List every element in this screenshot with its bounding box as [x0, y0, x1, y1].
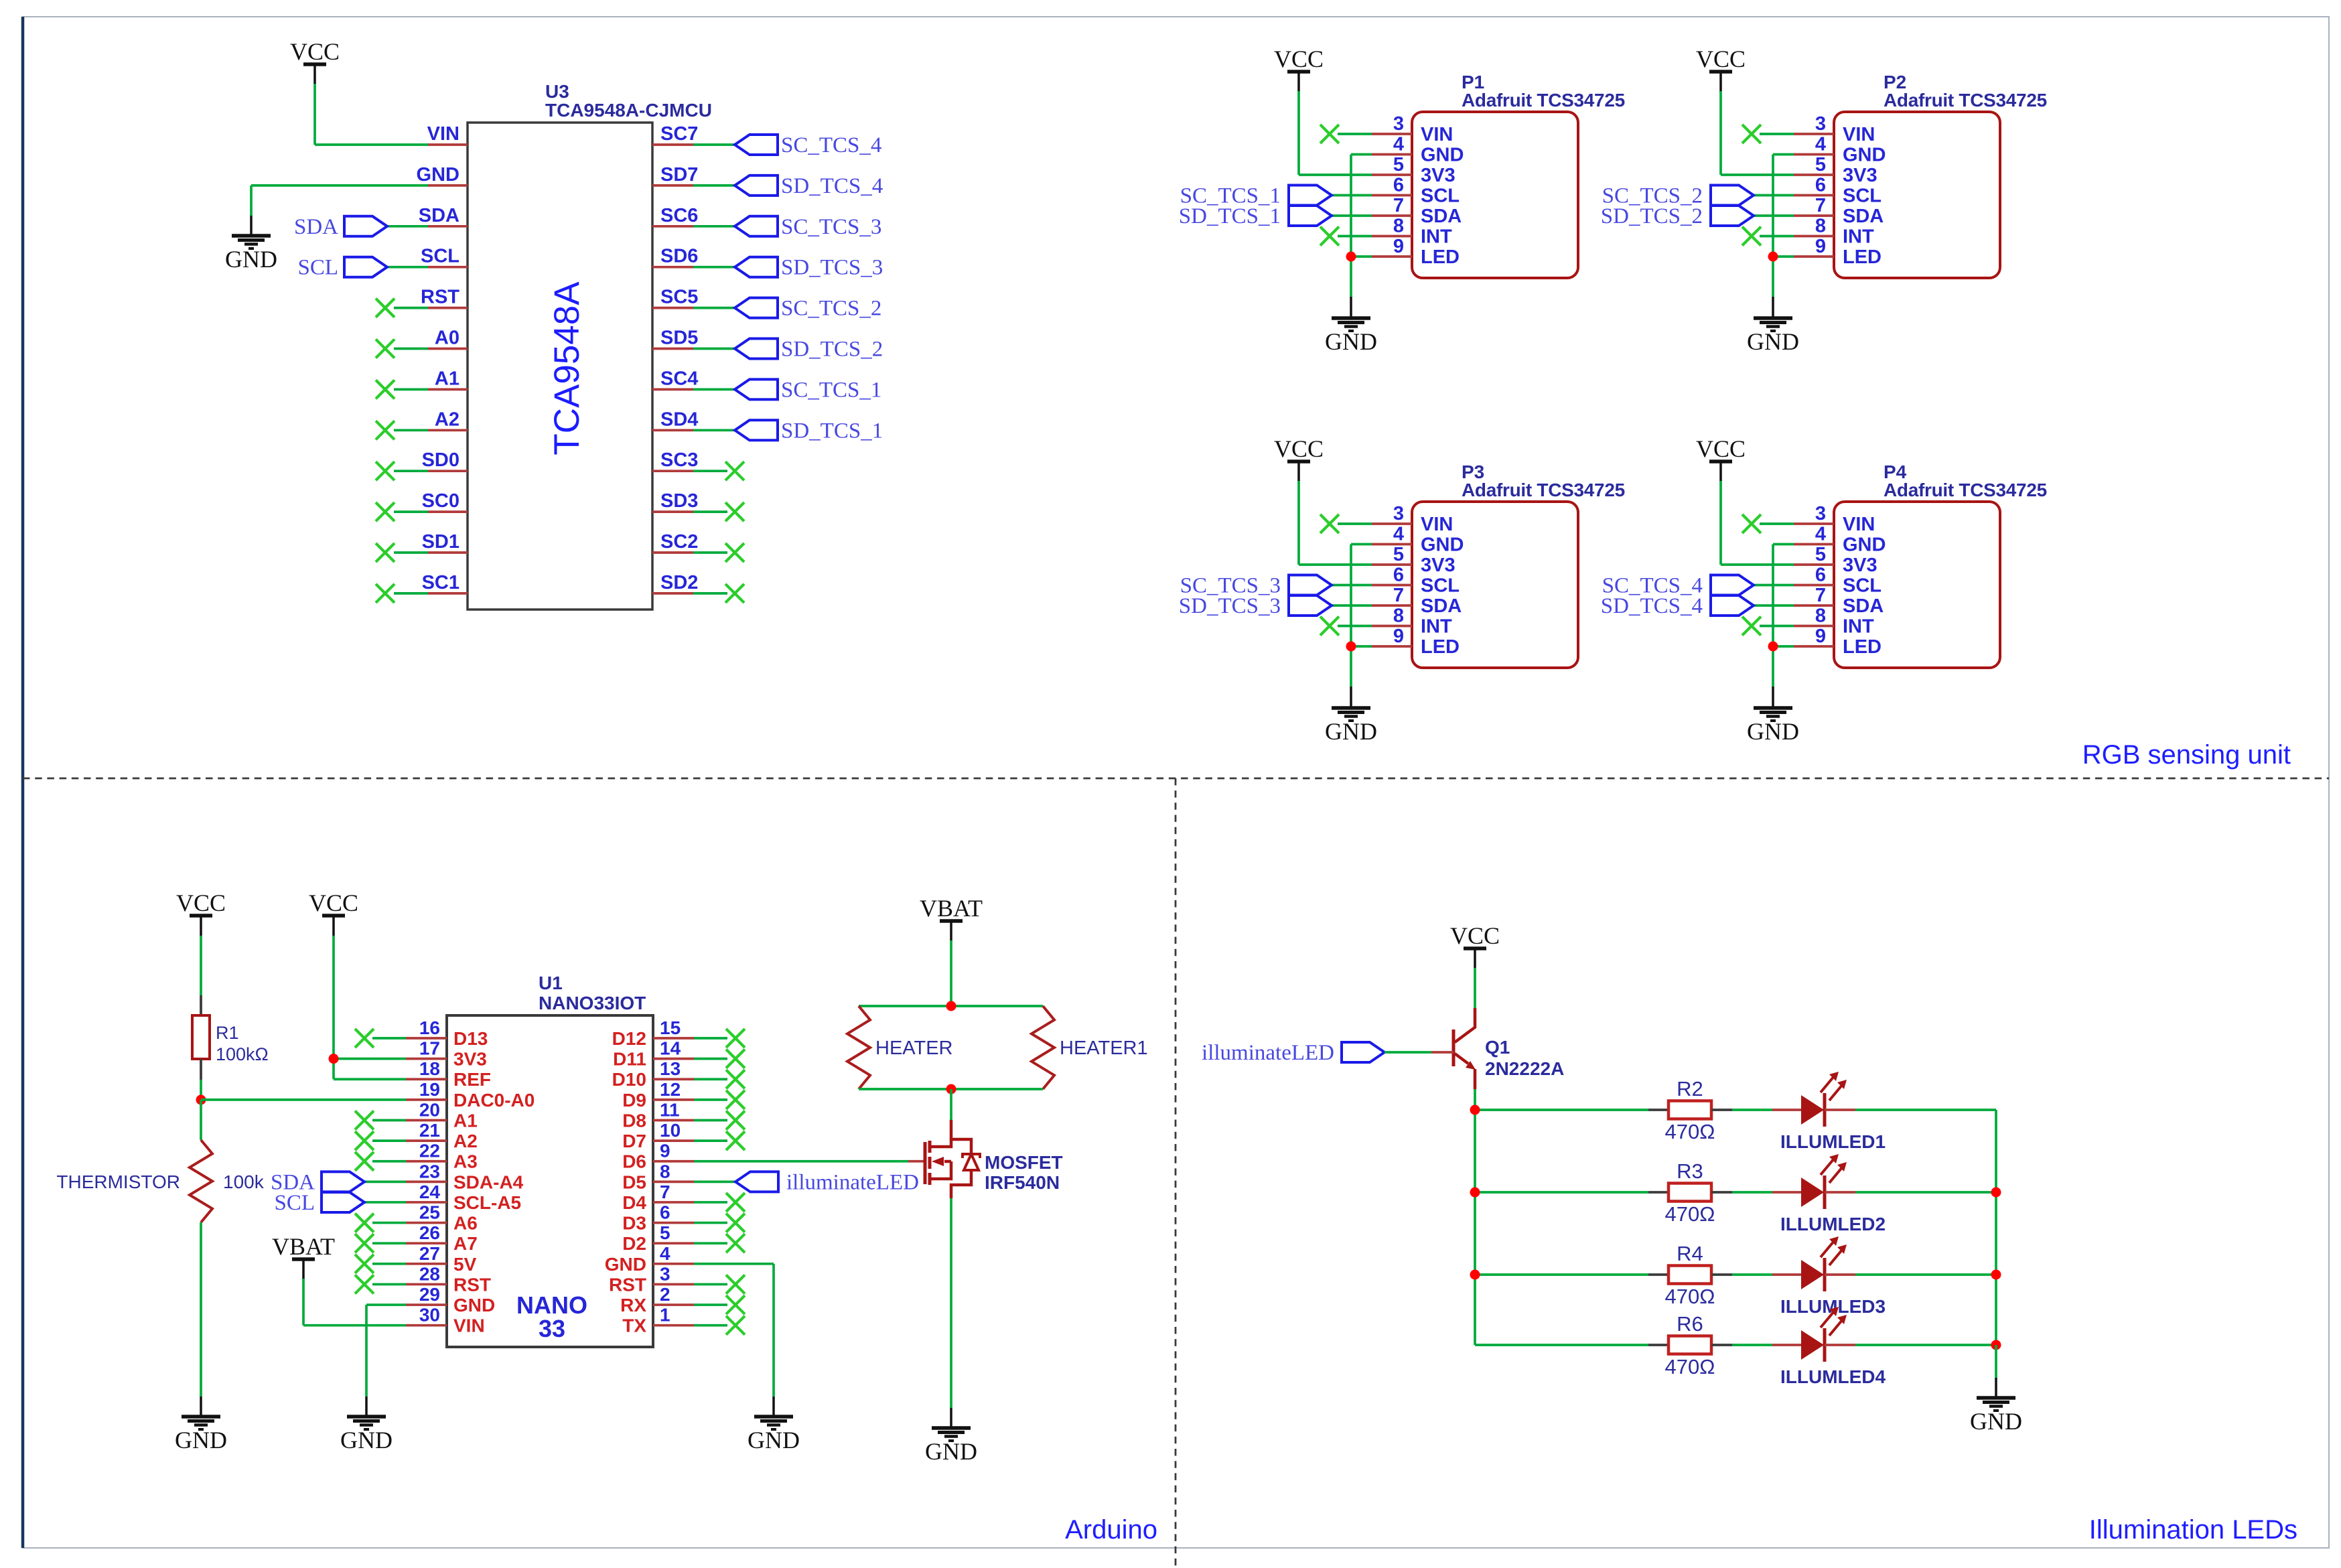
P3 pin 7 SDA stub and label [1372, 585, 1462, 617]
wire VCC to Q1 collector [1474, 968, 1476, 1008]
ground (P3) [1325, 708, 1377, 745]
wire R4 to LED3 [1732, 1273, 1801, 1276]
wire P1 GND pin [1351, 155, 1372, 319]
U3 pin SD7 (stub/wire/net) [652, 164, 883, 198]
svg-text:14: 14 [660, 1038, 681, 1059]
svg-text:470Ω: 470Ω [1665, 1202, 1715, 1226]
svg-text:6: 6 [1815, 175, 1826, 196]
P4 pin 8 INT stub and label [1794, 605, 1874, 638]
svg-text:SC3: SC3 [660, 449, 698, 471]
wire heater rail to MOSFET drain [950, 1089, 952, 1120]
svg-text:GND: GND [453, 1295, 495, 1315]
wire U3 GND pin to ground [251, 186, 428, 236]
svg-text:MOSFET: MOSFET [985, 1152, 1063, 1173]
LED ILLUMLED3 [1780, 1236, 1886, 1317]
ground (U3) [225, 236, 277, 273]
svg-text:VCC: VCC [1696, 435, 1746, 462]
net flag SD_TCS_1 to P1 SDA [1179, 204, 1372, 228]
svg-text:15: 15 [660, 1017, 681, 1038]
junction right bus rail4 [1991, 1340, 2001, 1350]
svg-text:R1: R1 [216, 1023, 239, 1043]
svg-text:VCC: VCC [1696, 46, 1746, 72]
U3 pin SD0 (stub/wire/label) [376, 449, 468, 480]
P3 pin 8 INT stub and label [1372, 605, 1452, 638]
svg-text:6: 6 [1393, 175, 1404, 196]
svg-text:11: 11 [660, 1099, 680, 1120]
svg-text:5: 5 [1393, 154, 1404, 175]
svg-text:SC6: SC6 [660, 205, 698, 226]
svg-text:D12: D12 [612, 1028, 646, 1049]
svg-text:4: 4 [660, 1243, 670, 1264]
ground (thermistor) [175, 1417, 227, 1453]
svg-text:3V3: 3V3 [1421, 165, 1456, 186]
svg-text:LED: LED [1421, 636, 1460, 658]
svg-text:SC2: SC2 [660, 531, 698, 553]
net flag illuminateLED from U1 D5 [694, 1170, 919, 1194]
wire U1 GND(29) to ground [366, 1305, 406, 1417]
P2 pin 8 INT stub and label [1794, 216, 1874, 248]
svg-text:LED: LED [1421, 246, 1460, 268]
U3 pin VIN (stub/wire/label) [427, 123, 468, 145]
power VCC (U1 supply) [309, 889, 358, 936]
svg-text:7: 7 [660, 1182, 670, 1202]
svg-text:R4: R4 [1677, 1242, 1703, 1265]
svg-text:INT: INT [1421, 616, 1452, 638]
svg-text:21: 21 [419, 1120, 440, 1141]
svg-text:SD_TCS_2: SD_TCS_2 [1601, 204, 1703, 228]
svg-text:VCC: VCC [176, 889, 226, 916]
svg-text:RGB sensing unit: RGB sensing unit [2082, 740, 2291, 770]
svg-text:A3: A3 [453, 1151, 478, 1172]
svg-text:470Ω: 470Ω [1665, 1285, 1715, 1308]
svg-text:GND: GND [175, 1427, 227, 1453]
ground (P1) [1325, 318, 1377, 355]
svg-text:D8: D8 [622, 1110, 646, 1131]
svg-text:THERMISTOR: THERMISTOR [56, 1171, 180, 1192]
wire LED3 to right bus [1825, 1273, 1996, 1276]
resistor R4 470Ω [1648, 1242, 1732, 1308]
wire heater top rail [859, 1005, 1043, 1007]
svg-text:4: 4 [1393, 524, 1404, 545]
svg-text:R6: R6 [1677, 1312, 1703, 1336]
resistor R6 470Ω [1648, 1312, 1732, 1378]
svg-text:INT: INT [1843, 616, 1874, 638]
svg-text:RST: RST [453, 1274, 491, 1295]
P4 pin 6 SCL stub and label [1794, 565, 1882, 597]
U1 pin 16 D13 [355, 1017, 488, 1049]
svg-text:illuminateLED: illuminateLED [1202, 1041, 1334, 1065]
P1 INT no-connect [1320, 227, 1372, 246]
ground (MOSFET source) [925, 1428, 977, 1465]
svg-text:GND: GND [340, 1427, 393, 1453]
wire U1 GND(4) to ground [694, 1264, 774, 1417]
U1 pin 9 D6 [622, 1141, 694, 1172]
LED ILLUMLED1 [1780, 1072, 1886, 1152]
power VCC (Q1 collector) [1450, 922, 1500, 969]
net flag SC_TCS_3 to P3 SCL [1180, 574, 1372, 598]
svg-text:GND: GND [748, 1427, 800, 1453]
wire P3 LED pin to ground net [1351, 645, 1372, 648]
svg-text:SCL: SCL [297, 256, 338, 280]
section label Arduino [1065, 1515, 1157, 1545]
U3 pin RST (stub/wire/label) [376, 287, 468, 317]
U3 pin A2 (stub/wire/label) [376, 409, 468, 439]
svg-text:9: 9 [1393, 626, 1404, 647]
net flag SD_TCS_2 to P2 SDA [1601, 204, 1794, 228]
svg-text:27: 27 [419, 1243, 440, 1264]
P3 pin 3 VIN stub and label [1372, 503, 1453, 535]
svg-text:GND: GND [1843, 534, 1886, 556]
junction P4 LED/GND [1768, 642, 1778, 652]
svg-text:28: 28 [419, 1263, 440, 1284]
U1 pin 25 A6 [355, 1202, 478, 1234]
svg-text:VCC: VCC [1274, 46, 1324, 72]
net flag SC_TCS_1 to P1 SCL [1180, 184, 1372, 208]
svg-text:illuminateLED: illuminateLED [786, 1170, 919, 1194]
svg-text:SCL: SCL [1421, 186, 1460, 207]
svg-text:3V3: 3V3 [1843, 165, 1877, 186]
svg-text:8: 8 [1393, 605, 1404, 627]
thermistor 100k [56, 1140, 264, 1222]
P2 pin 7 SDA stub and label [1794, 195, 1884, 227]
wire R3 to LED2 [1732, 1191, 1801, 1194]
svg-text:LED: LED [1843, 636, 1882, 658]
svg-text:8: 8 [660, 1161, 670, 1182]
svg-text:29: 29 [419, 1284, 440, 1305]
junction P2 LED/GND [1768, 252, 1778, 262]
svg-text:4: 4 [1393, 134, 1404, 155]
U1 pin 17 3V3 [406, 1038, 487, 1070]
svg-text:HEATER: HEATER [875, 1038, 952, 1059]
svg-text:D9: D9 [622, 1090, 646, 1111]
U3 pin A1 (stub/wire/label) [376, 368, 468, 399]
wire LED left bus [1474, 1110, 1476, 1345]
svg-text:7: 7 [1815, 585, 1826, 606]
U3 pin SD5 (stub/wire/net) [652, 328, 883, 362]
ground (P2) [1747, 318, 1799, 355]
svg-text:VIN: VIN [1421, 514, 1453, 535]
svg-text:U1: U1 [539, 973, 563, 993]
svg-text:3V3: 3V3 [453, 1049, 487, 1070]
svg-text:33: 33 [539, 1315, 565, 1342]
net flag SD_TCS_3 to P3 SDA [1179, 594, 1372, 618]
svg-text:ILLUMLED1: ILLUMLED1 [1780, 1131, 1886, 1152]
svg-text:A2: A2 [453, 1131, 478, 1151]
U1 pin 14 D11 [613, 1038, 745, 1070]
svg-text:3: 3 [660, 1263, 670, 1284]
svg-text:SDA: SDA [419, 205, 459, 226]
ground (U1 right) [748, 1417, 800, 1453]
ground (LED array) [1970, 1398, 2022, 1435]
svg-text:22: 22 [419, 1141, 440, 1161]
net flag SD_TCS_4 to P4 SDA [1601, 594, 1794, 618]
svg-text:D5: D5 [622, 1171, 646, 1192]
svg-text:3: 3 [1815, 113, 1826, 135]
svg-text:5: 5 [1815, 154, 1826, 175]
svg-text:NANO33IOT: NANO33IOT [539, 993, 646, 1013]
P1 pin 4 GND stub and label [1372, 134, 1464, 166]
svg-text:VCC: VCC [1274, 435, 1324, 462]
svg-text:3V3: 3V3 [1421, 555, 1456, 576]
svg-text:Adafruit TCS34725: Adafruit TCS34725 [1884, 90, 2047, 111]
resistor R1 100kΩ [192, 1015, 269, 1064]
U1 pin 7 D4 [622, 1182, 745, 1213]
U3 pin SD1 (stub/wire/label) [376, 531, 468, 562]
svg-text:SDA: SDA [1843, 595, 1884, 617]
svg-text:2N2222A: 2N2222A [1485, 1058, 1564, 1079]
wire VCC to U1 3V3/REF [334, 936, 406, 1079]
svg-text:A1: A1 [435, 368, 459, 389]
svg-text:SC5: SC5 [660, 287, 698, 308]
svg-text:3: 3 [1815, 503, 1826, 524]
junction VBAT/heater top [946, 1001, 956, 1011]
svg-text:6: 6 [1815, 565, 1826, 586]
svg-text:SD_TCS_2: SD_TCS_2 [781, 338, 883, 362]
junction P3 LED/GND [1346, 642, 1356, 652]
P2 pin 5 3V3 stub and label [1794, 154, 1877, 186]
net flag SC_TCS_4 to P4 SCL [1602, 574, 1794, 598]
U3 pin SD6 (stub/wire/net) [652, 246, 883, 280]
svg-text:12: 12 [660, 1079, 681, 1100]
wire VBAT to U1 VIN [303, 1279, 406, 1326]
svg-text:SCL: SCL [1421, 575, 1460, 597]
svg-text:6: 6 [1393, 565, 1404, 586]
junction right bus rail2 [1991, 1188, 2001, 1198]
ground (P4) [1747, 708, 1799, 745]
section label RGB sensing unit [2082, 740, 2291, 770]
IC P2 Adafruit TCS34725 body [1834, 72, 2047, 278]
P3 pin 5 3V3 stub and label [1372, 544, 1456, 576]
wire MOSFET source to ground [950, 1198, 952, 1428]
svg-text:6: 6 [660, 1202, 670, 1223]
svg-text:4: 4 [1815, 524, 1826, 545]
svg-text:7: 7 [1393, 585, 1404, 606]
svg-text:VIN: VIN [453, 1315, 485, 1336]
U1 pin 19 DAC0-A0 [406, 1079, 535, 1111]
wire VCC to P4 3V3 [1721, 481, 1794, 565]
svg-text:TX: TX [622, 1315, 646, 1336]
section label Illumination LEDs [2089, 1515, 2297, 1545]
P4 pin 7 SDA stub and label [1794, 585, 1884, 617]
svg-text:9: 9 [1393, 236, 1404, 257]
svg-text:REF: REF [453, 1069, 491, 1090]
svg-text:9: 9 [1815, 626, 1826, 647]
svg-text:18: 18 [419, 1058, 440, 1079]
net flag SCL to U1 SCL-A5 [274, 1191, 406, 1215]
U3 pin SC2 (stub/wire/net) [652, 531, 744, 562]
wire R2 to LED1 [1732, 1109, 1801, 1111]
power VCC (P4 supply) [1696, 435, 1746, 482]
svg-text:5: 5 [660, 1222, 670, 1243]
svg-text:4: 4 [1815, 134, 1826, 155]
net flag illuminateLED to Q1 base [1202, 1041, 1453, 1065]
svg-text:20: 20 [419, 1099, 440, 1120]
svg-text:SD3: SD3 [660, 490, 698, 512]
svg-text:3: 3 [1393, 503, 1404, 524]
LED ILLUMLED2 [1780, 1154, 1886, 1234]
P2 VIN no-connect [1742, 125, 1794, 143]
svg-text:A6: A6 [453, 1213, 478, 1234]
P1 VIN no-connect [1320, 125, 1372, 143]
power VCC (U3 supply) [290, 38, 340, 84]
wire VCC to P2 3V3 [1721, 91, 1794, 175]
svg-text:D6: D6 [622, 1151, 646, 1172]
svg-text:1: 1 [660, 1305, 670, 1326]
svg-text:SC_TCS_4: SC_TCS_4 [781, 133, 881, 157]
svg-text:19: 19 [419, 1079, 440, 1100]
svg-text:ILLUMLED4: ILLUMLED4 [1780, 1366, 1886, 1387]
power VCC (P1 supply) [1274, 46, 1324, 92]
P1 pin 6 SCL stub and label [1372, 175, 1460, 207]
P1 pin 8 INT stub and label [1372, 216, 1452, 248]
svg-text:SD5: SD5 [660, 328, 698, 349]
P4 VIN no-connect [1742, 514, 1794, 533]
svg-text:RX: RX [620, 1295, 646, 1315]
svg-text:SD1: SD1 [422, 531, 459, 553]
svg-text:26: 26 [419, 1222, 440, 1243]
svg-text:GND: GND [1325, 718, 1377, 745]
svg-text:SD_TCS_3: SD_TCS_3 [1179, 594, 1281, 618]
svg-text:SD_TCS_1: SD_TCS_1 [781, 419, 883, 443]
wire rail 1 left segment [1475, 1109, 1648, 1111]
U3 pin SCL (stub/wire/label) [297, 246, 468, 280]
svg-text:SCL: SCL [1843, 186, 1882, 207]
svg-text:SDA: SDA [1421, 206, 1462, 227]
svg-text:8: 8 [1393, 216, 1404, 237]
U1 pin 12 D9 [622, 1079, 745, 1111]
junction VCC/3V3 [329, 1054, 339, 1064]
P4 pin 9 LED stub and label [1794, 626, 1882, 658]
U3 pin SD4 (stub/wire/net) [652, 409, 883, 443]
U1 pin 11 D8 [622, 1099, 745, 1131]
wire heater bottom rail [859, 1088, 1043, 1090]
svg-text:GND: GND [1970, 1408, 2022, 1435]
svg-text:Arduino: Arduino [1065, 1515, 1157, 1545]
P1 pin 9 LED stub and label [1372, 236, 1460, 268]
U1 pin 20 A1 [355, 1099, 478, 1131]
svg-text:Illumination LEDs: Illumination LEDs [2089, 1515, 2297, 1545]
svg-text:INT: INT [1843, 226, 1874, 248]
P3 pin 6 SCL stub and label [1372, 565, 1460, 597]
svg-text:VIN: VIN [427, 123, 459, 145]
svg-text:VCC: VCC [290, 38, 340, 65]
P1 pin 5 3V3 stub and label [1372, 154, 1456, 186]
svg-text:GND: GND [1747, 328, 1799, 355]
svg-text:SCL: SCL [1843, 575, 1882, 597]
U1 pin 18 REF [406, 1058, 491, 1090]
svg-text:3V3: 3V3 [1843, 555, 1877, 576]
wire LED right bus [1995, 1110, 1997, 1345]
U3 pin SC5 (stub/wire/net) [652, 287, 881, 321]
svg-text:GND: GND [925, 1438, 977, 1465]
svg-text:SD_TCS_4: SD_TCS_4 [1601, 594, 1703, 618]
wire P4 GND pin [1773, 545, 1794, 709]
junction node A (R1/thermistor/DAC0-A0) [196, 1095, 206, 1105]
svg-text:A0: A0 [435, 328, 459, 349]
svg-text:Adafruit TCS34725: Adafruit TCS34725 [1462, 90, 1625, 111]
svg-text:SD_TCS_1: SD_TCS_1 [1179, 204, 1281, 228]
resistor R2 470Ω [1648, 1077, 1732, 1143]
power VBAT (heaters) [920, 895, 983, 941]
P4 pin 3 VIN stub and label [1794, 503, 1875, 535]
svg-text:INT: INT [1421, 226, 1452, 248]
svg-text:SCL-A5: SCL-A5 [453, 1192, 521, 1213]
wire P4 LED pin to ground net [1773, 645, 1794, 648]
U1 pin 24 SCL-A5 [406, 1182, 521, 1213]
svg-text:Adafruit TCS34725: Adafruit TCS34725 [1884, 480, 2047, 500]
section divider (horizontal dashed) [23, 778, 2329, 780]
U1 pin 29 GND [406, 1284, 495, 1315]
svg-text:24: 24 [419, 1182, 441, 1202]
P4 pin 4 GND stub and label [1794, 524, 1886, 556]
svg-text:SC_TCS_2: SC_TCS_2 [781, 297, 881, 321]
U1 pin 6 D3 [622, 1202, 745, 1234]
wire P1 LED pin to ground net [1351, 255, 1372, 258]
svg-text:VIN: VIN [1843, 514, 1875, 535]
IC P3 Adafruit TCS34725 body [1412, 461, 1625, 668]
U1 pin 4 GND [605, 1243, 694, 1275]
U1 pin 23 SDA-A4 [406, 1161, 524, 1192]
svg-text:3: 3 [1393, 113, 1404, 135]
wire VCC to R1 [200, 936, 202, 1015]
svg-text:SD6: SD6 [660, 246, 698, 267]
P3 VIN no-connect [1320, 514, 1372, 533]
svg-text:100k: 100k [223, 1171, 265, 1192]
svg-text:LED: LED [1843, 246, 1882, 268]
U1 pin 28 RST [355, 1263, 491, 1295]
junction heater bottom/MOSFET drain [946, 1084, 956, 1094]
U1 pin 3 RST [609, 1263, 745, 1295]
svg-text:A2: A2 [435, 409, 459, 430]
P1 pin 3 VIN stub and label [1372, 113, 1453, 145]
U1 pin 30 VIN [406, 1305, 485, 1336]
U3 pin SD2 (stub/wire/net) [652, 572, 744, 603]
wire P3 GND pin [1351, 545, 1372, 709]
svg-text:2: 2 [660, 1284, 670, 1305]
P2 pin 6 SCL stub and label [1794, 175, 1882, 207]
wire LED1 to right bus [1825, 1109, 1996, 1111]
svg-text:30: 30 [419, 1305, 440, 1326]
svg-text:D3: D3 [622, 1213, 646, 1234]
svg-text:VIN: VIN [1843, 124, 1875, 145]
IC U3 TCA9548A-CJMCU body [468, 81, 712, 610]
power VCC (P2 supply) [1696, 46, 1746, 92]
svg-text:SCL: SCL [274, 1191, 315, 1215]
svg-text:RST: RST [421, 287, 459, 308]
IC P4 Adafruit TCS34725 body [1834, 461, 2047, 668]
U1 pin 27 5V [355, 1243, 477, 1275]
svg-text:5: 5 [1815, 544, 1826, 565]
svg-text:R2: R2 [1677, 1077, 1703, 1100]
LED ILLUMLED4 [1780, 1307, 1886, 1387]
svg-text:TCA9548A: TCA9548A [547, 281, 587, 455]
svg-text:DAC0-A0: DAC0-A0 [453, 1090, 535, 1111]
svg-text:SD_TCS_3: SD_TCS_3 [781, 256, 883, 280]
svg-text:SC_TCS_3: SC_TCS_3 [781, 215, 881, 239]
U3 pin SC3 (stub/wire/net) [652, 449, 744, 480]
U1 pin 1 TX [622, 1305, 745, 1336]
svg-text:A1: A1 [453, 1110, 478, 1131]
junction left bus rail1 [1470, 1105, 1480, 1115]
svg-text:SC0: SC0 [422, 490, 459, 512]
svg-text:D11: D11 [613, 1049, 646, 1070]
svg-text:ILLUMLED2: ILLUMLED2 [1780, 1214, 1886, 1234]
U3 pin SC7 (stub/wire/net) [652, 123, 881, 157]
svg-text:GND: GND [1843, 145, 1886, 166]
svg-text:SC_TCS_1: SC_TCS_1 [781, 378, 881, 402]
svg-text:GND: GND [1421, 534, 1464, 556]
svg-text:TCA9548A-CJMCU: TCA9548A-CJMCU [545, 100, 712, 121]
